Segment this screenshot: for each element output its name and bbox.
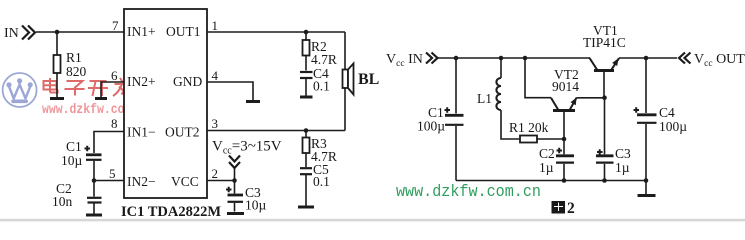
svg-text:820: 820 [66,64,87,79]
wire pin 3 to speaker [207,130,345,132]
ground right circuit [645,181,647,195]
resistor R2 [305,32,307,71]
node C4 bottom [644,178,649,183]
svg-text:100µ: 100µ [417,119,445,134]
node C3 top [232,178,237,183]
svg-text:0.1: 0.1 [313,79,330,94]
op-amp IC1 TDA2822M body [124,9,207,198]
ground under C3 [227,212,244,215]
wire pin 8 [94,132,124,154]
wire pin 2 [207,180,235,182]
wire bottom rail [456,180,646,182]
node pin5 / C1 / C2 [92,178,97,183]
svg-text:IC1 TDA2822M: IC1 TDA2822M [121,204,221,220]
svg-text:Vcc=3~15V: Vcc=3~15V [212,139,282,157]
capacitor C1 100u [455,58,457,114]
input arrow chevrons [22,26,35,40]
svg-text:R1 20k: R1 20k [509,120,549,135]
watermark red char zi [65,81,85,96]
svg-text:C1: C1 [66,139,82,154]
capacitor C4 0.1 [300,71,313,73]
svg-text:IN1+: IN1+ [127,24,156,39]
wire pin 1 to speaker [207,31,345,33]
svg-text:OUT2: OUT2 [165,125,200,140]
wire IN to pin 7 [36,31,124,33]
wire VT2 collector branch [525,58,551,98]
output arrow chevrons [679,53,691,64]
svg-text:0.1: 0.1 [313,174,330,189]
node C4 top [644,56,649,61]
svg-text:Vcc OUT: Vcc OUT [694,52,745,69]
svg-text:TIP41C: TIP41C [583,35,626,50]
node R1 / VT2 base / C2 [562,137,567,142]
wire pin 5 [94,180,124,182]
transistor VT1 TIP41C [590,58,598,70]
svg-text:C2: C2 [539,146,555,161]
svg-text:1µ: 1µ [615,160,630,175]
svg-text:8: 8 [111,116,118,131]
wire pin 4 to ground [207,82,253,100]
svg-text:100µ: 100µ [659,119,687,134]
svg-text:BL: BL [358,71,379,88]
svg-text:5: 5 [109,166,116,181]
svg-text:VCC: VCC [171,174,199,189]
svg-text:1µ: 1µ [539,160,554,175]
svg-text:4.7R: 4.7R [311,52,337,67]
svg-text:C4: C4 [659,105,675,120]
capacitor C2 1u [563,139,565,154]
label figure 2 [552,201,566,214]
svg-text:1: 1 [212,18,219,33]
node C3 bottom [602,178,607,183]
transistor VT2 9014 [551,98,559,111]
svg-text:3: 3 [212,116,219,131]
node R3 top [304,128,309,133]
svg-text:IN2−: IN2− [127,174,156,189]
capacitor C2 10n [93,181,95,197]
scan artifact line [0,219,745,222]
wire speaker column [344,32,346,131]
node C2 bottom [562,178,567,183]
node at R1 top [55,30,60,35]
svg-text:4: 4 [212,68,219,83]
capacitor C3 1u right circuit [604,98,606,155]
node C1 top [454,56,459,61]
ground under pin 6 [95,97,107,100]
node R2 top [304,30,309,35]
svg-text:IN2+: IN2+ [127,74,156,89]
svg-text:6: 6 [111,68,118,83]
svg-text:GND: GND [173,74,202,89]
svg-text:R1: R1 [66,50,82,65]
supply arrow chevrons down [229,156,240,169]
ground under pin 4 [246,100,260,103]
watermark red char kai [88,81,108,96]
watermark red char five [134,81,155,95]
wire top rail left [438,57,590,59]
ground under R1 [50,97,64,100]
resistor R1 20k [520,136,537,143]
svg-text:OUT1: OUT1 [166,24,201,39]
inductor L1 [500,58,502,78]
watermark blue logo [3,73,37,107]
svg-text:L1: L1 [477,91,492,106]
ground under C2 [86,214,102,217]
svg-text:IN1−: IN1− [127,125,156,140]
input arrow chevrons right circuit [426,53,438,64]
wire pin 6 [101,82,124,97]
resistor R3 [305,131,307,168]
watermark red char fa [113,78,132,97]
svg-text:Vcc IN: Vcc IN [386,52,423,69]
svg-text:2: 2 [567,200,575,217]
capacitor C4 100u [645,58,647,113]
svg-text:C3: C3 [615,146,631,161]
ground under C5 [298,206,314,209]
svg-text:IN: IN [4,26,19,41]
capacitor C3 10u [234,181,236,194]
node VT2 branch top [523,56,528,61]
speaker BL [343,70,349,89]
wire VT2 emitter to VT1 base node [577,97,605,99]
svg-text:10µ: 10µ [245,198,267,213]
svg-text:www.dzkfw.com.cn: www.dzkfw.com.cn [396,183,541,202]
ground under C4 [300,96,313,99]
svg-text:10µ: 10µ [61,153,83,168]
node L1 top [499,56,504,61]
capacitor C1 10u [86,153,102,156]
svg-text:10n: 10n [52,194,73,209]
capacitor C5 0.1 [300,167,312,169]
node VT1 base / C3 [602,95,607,100]
wire top rail right [619,57,677,59]
svg-text:2: 2 [212,166,219,181]
watermark red char dian [44,78,58,93]
svg-text:7: 7 [112,18,119,33]
svg-text:9014: 9014 [552,79,579,94]
resistor R1 [56,34,58,97]
